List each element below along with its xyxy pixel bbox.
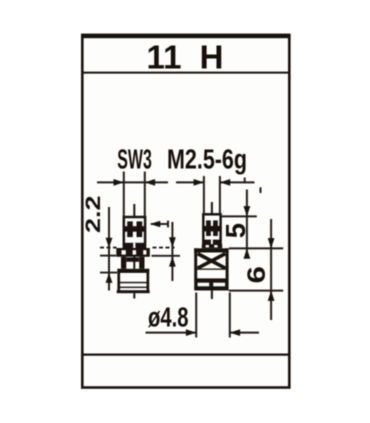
dimension 4.8 extension lines [196,293,230,338]
frame outer border [81,34,291,388]
centerline right part [211,202,213,299]
hex rod inner H mark [124,221,145,237]
extension line body top [229,247,283,249]
dimension M2.5-6g extension lines [204,176,220,214]
svg-text:SW3: SW3 [117,144,152,175]
svg-text:ø4.8: ø4.8 [148,302,189,333]
stud bottom band [204,240,220,245]
header separator line [83,72,290,74]
hex rod body [124,217,145,248]
bottom separator line [83,354,290,356]
dimension SW3 extension lines [124,172,145,218]
extension stubs left of part [100,248,117,273]
knurled body [194,248,228,290]
centerline left part [133,204,135,299]
dimension 5 line with outside arrows [244,190,251,259]
dimension M2.5-6g line with outside arrows [176,178,255,186]
extension line stud top [221,215,257,217]
bottom cylinder [117,269,150,293]
dimension 4.8 line with outside arrows [146,329,260,336]
svg-text:H: H [200,38,224,75]
dimension 6 line with outside arrows [268,219,275,320]
neck step [202,244,222,248]
extension line body bottom [229,290,283,292]
dashed hidden edge right of flange [153,247,175,249]
stray tick near 6g [260,187,262,193]
groove section [121,257,145,269]
extension line flange bottom right [152,255,181,257]
svg-text:11: 11 [147,38,182,75]
dimension 1 line with outside arrows [169,222,176,281]
hex rod bottom band [125,243,145,248]
dimension SW3 line with outside arrows [97,179,168,186]
label 1 leader arrow [150,221,169,228]
svg-text:2.2: 2.2 [82,196,105,234]
threaded stud body [203,214,220,244]
knurl cross X [198,254,226,269]
svg-text:M2.5-6g: M2.5-6g [167,144,247,175]
flange [116,248,150,257]
stud inner H mark [203,220,220,236]
dimension 2.2 line with outside arrows [106,207,113,291]
svg-text:6: 6 [242,266,270,283]
